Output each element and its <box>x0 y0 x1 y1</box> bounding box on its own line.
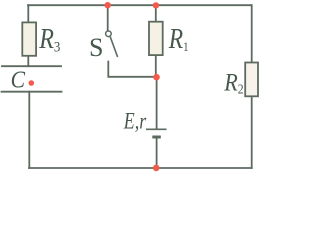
wire bottom <box>29 167 252 169</box>
wire R1 bottom lead to junction <box>155 55 157 77</box>
wire switch lower lead (L shape to middle junction) <box>108 62 156 77</box>
wire switch upper lead <box>107 5 109 31</box>
node middle junction <box>153 74 160 81</box>
wire top <box>28 4 252 6</box>
capacitor C top plate <box>2 65 61 67</box>
svg-text:S: S <box>89 33 103 62</box>
wire left-top (to R3) <box>27 5 29 22</box>
battery E short plate <box>152 136 161 139</box>
wire capacitor to bottom-left corner <box>28 92 30 168</box>
switch S pivot circle <box>106 31 112 37</box>
battery E long plate <box>146 128 167 130</box>
wire right side <box>251 5 253 62</box>
wire right below R2 <box>251 97 253 169</box>
resistor R1 <box>149 22 163 55</box>
wire R1 top lead <box>155 5 157 21</box>
wire battery to bottom <box>156 138 158 168</box>
svg-text:C: C <box>11 65 26 93</box>
node top R1 junction <box>153 2 159 8</box>
node top switch junction <box>105 2 111 8</box>
resistor R2 <box>245 63 258 97</box>
node bottom junction <box>153 165 160 172</box>
wire R3 bottom to capacitor <box>27 56 29 66</box>
switch S blade <box>110 37 117 57</box>
svg-text:E,r: E,r <box>123 110 147 135</box>
node capacitor dot <box>29 80 35 86</box>
wire junction to battery <box>156 77 158 129</box>
resistor R3 <box>22 22 36 55</box>
capacitor C bottom plate <box>2 91 62 93</box>
